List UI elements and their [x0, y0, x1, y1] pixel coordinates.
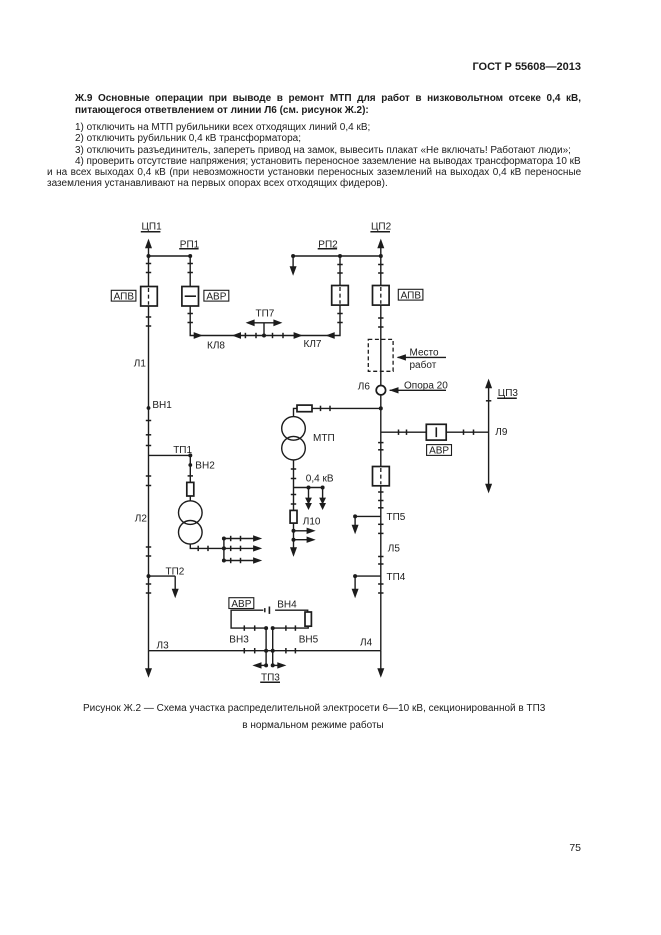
wire link ЦП1 to РП1: [149, 255, 191, 257]
breaker Q2 with АВР on РП1 line: [182, 287, 199, 307]
transformer point ТП2 branch: [147, 574, 179, 598]
svg-text:Место: Место: [410, 348, 439, 359]
pole symbol opora on Л6: [376, 386, 385, 395]
breaker Q4 on ЦП2 line: [373, 286, 390, 306]
list item 4 line 1: [75, 157, 581, 167]
list item 3: [75, 146, 571, 156]
circuit schematic figure Ж.2: [0, 215, 661, 700]
label АПВ boxed right: [398, 289, 423, 301]
breaker Q5 with АВР on Л9: [426, 424, 446, 440]
node РП2 label: [318, 239, 338, 250]
arrow on КЛ8 pointing right: [194, 332, 203, 339]
junction dot ЦП1/РП1 link: [147, 254, 151, 258]
svg-text:ВН4: ВН4: [277, 600, 297, 611]
fuse F3 ТП1: [187, 482, 194, 496]
breaker Q1 on ЦП1 line (АПВ): [141, 287, 158, 307]
ticks on Л9: [399, 430, 474, 435]
node РП1 label: [179, 239, 199, 250]
ticks on МТП feeder: [321, 406, 331, 411]
svg-text:Л5: Л5: [388, 543, 401, 554]
wire ТП1 secondary to bus: [190, 544, 224, 548]
svg-text:КЛ7: КЛ7: [304, 339, 322, 350]
ticks on РП1 drop: [188, 264, 193, 323]
svg-text:Л9: Л9: [495, 427, 508, 438]
svg-text:АПВ: АПВ: [114, 291, 135, 302]
figure caption line 2: [242, 721, 383, 731]
wire ЦП2 trunk with source arrow up: [377, 239, 384, 651]
svg-text:Опора 20: Опора 20: [404, 381, 448, 392]
wire МТП secondary drop: [293, 460, 295, 488]
heading Ж.9 line 1: [75, 94, 581, 104]
junction dots ТП3 taps on tie line: [264, 649, 275, 653]
junction dots Л10: [292, 529, 296, 542]
arrow on КЛ7 pointing left: [326, 332, 335, 339]
label АВР boxed ТП3: [229, 598, 254, 610]
ticks on ЦП2 trunk: [378, 265, 383, 594]
junction dot РП1: [188, 254, 192, 258]
arrow ТП1 outgoing 2: [224, 545, 262, 551]
wire fuse to transformer ТП1: [189, 496, 191, 501]
label АВР boxed Л9: [427, 445, 452, 457]
wire below fuse Л10: [293, 523, 295, 549]
svg-text:ВН2: ВН2: [195, 460, 215, 471]
ticks on ТП3 right bus: [286, 625, 296, 630]
svg-text:Л2: Л2: [135, 513, 148, 524]
ticks on ТП3 left bus: [244, 625, 254, 630]
switch ВН1 dot on Л1: [147, 406, 151, 410]
disconnector Q6 on ЦП2 trunk below Л6: [373, 467, 390, 486]
running header ГОСТ Р 55608—2013: [380, 62, 581, 73]
arrow ТП1 outgoing 1: [224, 535, 262, 541]
svg-text:АПВ: АПВ: [401, 290, 422, 301]
arrow pointer Опора 20: [389, 387, 446, 393]
svg-text:АВР: АВР: [231, 599, 251, 610]
wire bottom tie line Л3-Л4: [149, 650, 381, 652]
arrow on КЛ7 pointing right: [294, 332, 303, 339]
wire ТП3 left loop: [231, 610, 266, 628]
ticks on МТП secondary: [291, 469, 296, 479]
transformer Т2 ТП1 circles: [179, 501, 203, 544]
transformer point ТП1 branch: [149, 453, 193, 457]
arrow feeder from РП2 down: [290, 256, 297, 276]
junction dots ТП3 bus ends: [264, 626, 275, 667]
ticks on bottom tie line: [244, 648, 295, 653]
list item 1: [75, 123, 370, 133]
svg-text:Л1: Л1: [134, 359, 147, 370]
junction dots 0,4 кВ bus: [307, 486, 325, 490]
page number 75: [540, 843, 581, 854]
wire РП2 bus to ЦП2: [293, 255, 381, 257]
wire Л9 branch: [381, 431, 489, 433]
list item 4 line 3: [47, 179, 388, 189]
node ЦП3 label: [497, 388, 518, 399]
svg-text:АВР: АВР: [206, 291, 226, 302]
ticks on cable left of ТП7: [245, 333, 256, 338]
svg-text:ТП1: ТП1: [173, 445, 192, 456]
svg-text:КЛ8: КЛ8: [207, 340, 225, 351]
junction dot ТП7 tap: [262, 334, 266, 338]
svg-text:Л4: Л4: [360, 637, 373, 648]
arrow ТП3 outgoing right: [273, 662, 287, 668]
arrow 0,4 кВ outgoing line 2 double head: [319, 488, 326, 511]
arrow ТП3 outgoing left: [252, 662, 266, 668]
junction dot МТП tap: [379, 406, 383, 410]
svg-text:ВН1: ВН1: [152, 400, 172, 411]
arrow on КЛ8 pointing left: [232, 332, 241, 339]
fuse F1 МТП: [297, 405, 312, 412]
switch ВН5 box: [305, 612, 311, 626]
svg-text:ТП5: ТП5: [387, 512, 406, 523]
transformer point ТП5 branch: [352, 514, 381, 534]
label АВР boxed РП1: [204, 290, 229, 302]
wire 0,4 кВ bus: [294, 487, 323, 489]
svg-text:Л6: Л6: [358, 381, 371, 392]
ticks on cable right of ТП7: [273, 333, 284, 338]
list item 4 line 2: [47, 168, 581, 178]
fuse F2 Л10: [290, 510, 297, 523]
figure caption line 1: [83, 704, 545, 714]
svg-text:Л3: Л3: [157, 640, 170, 651]
arrow Л10 branch right 1: [294, 528, 316, 534]
label Место работ: [410, 348, 439, 371]
wire ТП1 outgoing bus: [223, 539, 225, 561]
switch ВН2 dot: [188, 463, 192, 467]
arrow 0,4 кВ outgoing line 1 double head: [305, 488, 312, 511]
node ЦП1 label: [141, 222, 162, 233]
svg-text:ТП2: ТП2: [166, 566, 185, 577]
heading Ж.9 line 2: [75, 106, 369, 116]
switch ВН4 contact: [265, 607, 270, 614]
svg-text:МТП: МТП: [313, 433, 335, 444]
wire ТП3 riser right: [272, 628, 274, 665]
svg-text:работ: работ: [410, 359, 437, 371]
ticks on Л1 trunk: [146, 264, 151, 594]
wire arrow Л4 continuation down: [377, 651, 384, 678]
wire arrow Л3 continuation down: [145, 651, 152, 678]
wire fuse to transformer: [294, 408, 298, 416]
ticks on РП2 drop: [337, 265, 342, 323]
svg-text:ТП4: ТП4: [387, 572, 406, 583]
wire ТП3 right loop: [273, 626, 309, 628]
junction dot РП2: [338, 254, 342, 258]
wire Л10 drop: [293, 488, 295, 511]
tick on ТП1 drop: [188, 475, 193, 477]
svg-text:АВР: АВР: [429, 446, 449, 457]
svg-text:ТП7: ТП7: [256, 308, 275, 319]
wire ТП3 riser left: [265, 628, 267, 665]
label АПВ boxed left: [111, 290, 136, 302]
arrow pointer to work area: [397, 354, 446, 360]
list item 2: [75, 134, 301, 144]
junction dot РП2 bus left: [291, 254, 295, 258]
ticks on ТП1 secondary: [198, 546, 208, 551]
svg-text:0,4 кВ: 0,4 кВ: [306, 474, 334, 485]
junction dots ТП1 bus: [222, 537, 226, 563]
wire РП2 drop: [339, 256, 341, 286]
arrow Л10 branch right 2: [294, 537, 316, 543]
wire РП1 drop: [189, 256, 191, 287]
node ЦП3 two-way feeder line: [485, 379, 492, 494]
wire ЦП1 feeder trunk Л1/Л2/Л3 with source arrow up: [145, 239, 152, 651]
wire ТП1 drop: [189, 455, 191, 482]
svg-text:ВН5: ВН5: [299, 634, 319, 645]
transformer point ТП4 branch: [352, 574, 381, 598]
arrow ТП1 outgoing 3: [224, 557, 262, 563]
breaker Q3 on РП2 line: [332, 286, 349, 306]
wire МТП feeder: [312, 407, 381, 409]
node ЦП2 label: [370, 222, 391, 233]
work area dashed box Место работ: [368, 339, 393, 371]
transformer point ТП7 double arrow: [246, 319, 283, 335]
arrow Л10 down: [290, 547, 297, 557]
wire cable КЛ8-КЛ7 between РП1 and РП2: [190, 305, 340, 335]
transformer Т1 МТП circles: [282, 417, 306, 460]
ticks on Л10 drop: [291, 495, 296, 505]
wire ТП3 top bus right: [275, 610, 308, 612]
svg-text:ВН3: ВН3: [229, 634, 249, 645]
svg-text:Л10: Л10: [303, 516, 321, 527]
node ТП3 label: [260, 672, 280, 683]
junction dot ЦП2 top: [379, 254, 383, 258]
